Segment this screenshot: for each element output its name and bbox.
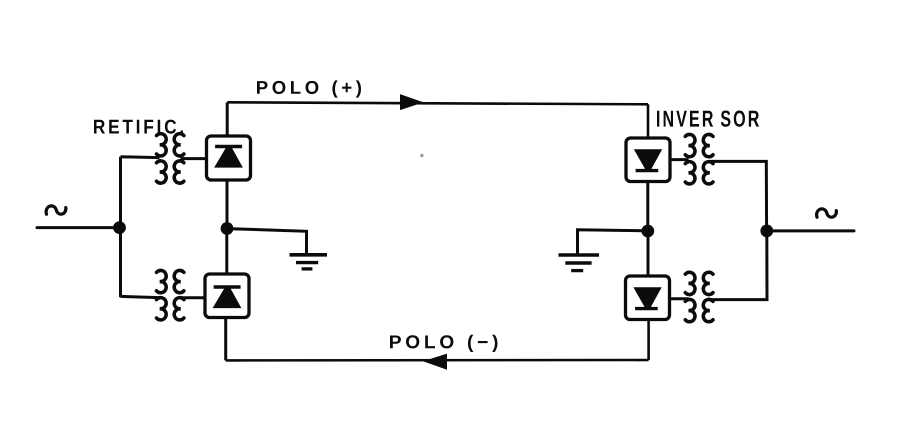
ground symbol (rectifier) [290, 255, 328, 269]
arrow on POLO(+) pointing right [400, 94, 424, 110]
transformer T3 secondary winding [703, 134, 713, 183]
wire: inverter ground lead [578, 230, 648, 254]
arrow on POLO(-) pointing left [423, 354, 447, 370]
valve V1 (rectifier upper thyristor) [207, 136, 251, 180]
transformer T4 secondary winding [703, 272, 713, 321]
wire: mid node to valve V2 [225, 229, 228, 275]
scan speckle [420, 154, 423, 157]
wire: V4 to T4 primary [670, 297, 689, 300]
wire: T3 secondary to AC bus [710, 161, 767, 231]
transformer T2 primary winding [157, 270, 167, 319]
AC source right (~ symbol) [817, 209, 837, 217]
wire: T1 secondary to valve V1 [181, 157, 207, 160]
node: left AC junction dot [113, 221, 126, 234]
transformer T1 primary winding [157, 134, 167, 183]
wire: POLO (+) pole line [227, 102, 648, 138]
wire: V3 to T3 primary [670, 158, 689, 161]
wire: mid node to valve V4 [647, 231, 650, 276]
wire: POLO (-) pole line [226, 320, 649, 361]
wire: rectifier ground lead [227, 229, 307, 254]
node: rectifier midpoint dot [221, 222, 234, 235]
transformer T4 primary winding [685, 272, 695, 321]
wire: V1 top to POLO(+) [226, 103, 229, 137]
valve V2 (rectifier lower thyristor) [205, 274, 249, 318]
node: right AC junction dot [760, 225, 773, 238]
wire: right AC lead [767, 229, 854, 232]
ground symbol (inverter) [559, 255, 600, 271]
wire: rectifier bottom branch [121, 296, 160, 297]
wire: V2 bottom to POLO(-) [224, 318, 227, 361]
transformer T1 secondary winding [174, 134, 184, 183]
AC source left (~ symbol) [46, 206, 66, 214]
valve V4 (inverter lower thyristor) [626, 276, 670, 320]
transformer T3 primary winding [685, 134, 695, 183]
wire: right bus to T4 secondary [710, 231, 767, 300]
label POLO (+) [257, 80, 361, 97]
wire: left AC lead [37, 226, 119, 229]
label POLO (-) [390, 335, 498, 352]
transformer T2 secondary winding [174, 270, 184, 319]
label INVERSOR [657, 111, 759, 127]
label RETIFIC. [94, 120, 183, 134]
wire: V3 bottom to mid node [646, 182, 649, 232]
wire: rectifier top branch [121, 155, 160, 159]
valve V3 (inverter upper thyristor) [626, 138, 670, 182]
node: inverter midpoint dot [641, 225, 654, 238]
wire: V1 bottom to mid node [226, 180, 229, 229]
wire: T2 secondary to valve V2 [181, 296, 206, 299]
wire: left bus vertical [119, 157, 122, 297]
